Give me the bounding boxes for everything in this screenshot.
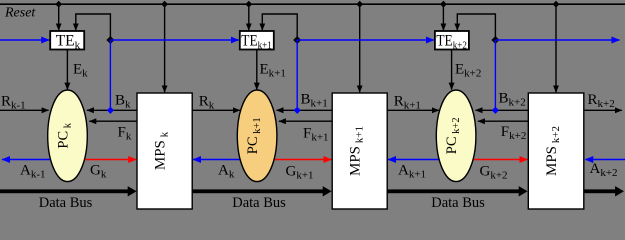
wire Data Bus segment 2: [192, 189, 323, 193]
junction on Reset net above MPS_k+2: [553, 1, 560, 8]
microprogram sequencer MPS_k: [137, 93, 192, 209]
wire B_k+2 from MPS_k+2 to PC_k+2: [476, 109, 529, 111]
junction B_k+1 (blue diamond): [294, 107, 301, 114]
wire TE_k feedback L-path from node to TE input 2: [76, 14, 111, 40]
wire Reset to MPS_k+1 top: [359, 4, 361, 92]
wire A_k+2 from right edge into MPS_k+2: [585, 159, 625, 161]
wire F_k+2 from MPS_k+2 to PC_k+2: [478, 120, 528, 122]
register TE_k+2: [435, 31, 469, 50]
junction B_k+2 (blue diamond): [492, 107, 499, 114]
wire R_k+1 into PC_k+2: [387, 109, 439, 111]
svg-text:Reset: Reset: [4, 5, 36, 20]
wire TE_k+2 feedback L-path from node to TE input 2: [457, 14, 495, 40]
svg-text:Data Bus: Data Bus: [39, 195, 93, 211]
wire Reset to TE_k+2 input 1: [442, 4, 444, 30]
program counter PC_k+2: [436, 90, 476, 182]
wire E_k from TE_k to PC_k: [66, 50, 68, 90]
wire A output of PC_k+2 (blue, to the left): [388, 159, 456, 161]
wire F_k from MPS_k to PC_k: [89, 120, 137, 122]
node T_k+1 junction (black diamond) on blue enable line: [293, 36, 301, 44]
svg-text:Data Bus: Data Bus: [232, 195, 286, 211]
wire blue vertical from node T_k+2 down to B_k+2 line: [494, 40, 496, 110]
wire blue vertical from node T_k down to B_k line: [109, 40, 111, 110]
wire TE_k+1 feedback L-path from node to TE input 2: [262, 14, 297, 40]
junction B_k (blue diamond): [107, 107, 114, 114]
wire A output of PC_k+1 (blue, to the left): [193, 159, 257, 161]
wire Reset to TE_k input 1: [58, 4, 60, 30]
register TE_k+1: [240, 31, 274, 50]
junction on Reset net above MPS_k+1: [356, 1, 363, 8]
wire blue enable line into TE_k+2: [297, 39, 434, 41]
wire Data Bus segment 3: [387, 189, 519, 193]
wire R_k into PC_k+1: [192, 109, 240, 111]
wire Reset to MPS_k+2 top: [555, 4, 557, 92]
junction on Reset net above TE_k+2: [440, 1, 447, 8]
wire G_k+1 output of PC_k+1 (red, to MPS_k+1): [257, 159, 331, 161]
node T_k junction (black diamond) on blue enable line: [106, 36, 114, 44]
node T_k+2 junction (black diamond) on blue enable line: [491, 36, 499, 44]
wire E_k+2 from TE_k+2 to PC_k+2: [451, 50, 453, 90]
wire B_k from MPS_k to PC_k: [87, 109, 137, 111]
wire B_k+1 from MPS_k+1 to PC_k+1: [277, 109, 333, 111]
junction on Reset net above MPS_k: [161, 1, 168, 8]
wire G_k+2 output of PC_k+2 (red, to MPS_k+2): [456, 159, 527, 161]
wire Reset net horizontal: [0, 3, 625, 5]
svg-text:Data Bus: Data Bus: [431, 195, 485, 211]
wire E_k+1 from TE_k+1 to PC_k+1: [256, 50, 258, 90]
junction on Reset net above TE_k+1: [245, 1, 252, 8]
register TE_k: [50, 31, 84, 50]
wire A output of PC_k (blue, to the left): [2, 159, 68, 161]
wire R_k+2 out of MPS_k+2 to right edge: [584, 109, 622, 111]
wire Reset to MPS_k top: [164, 4, 166, 92]
junction on Reset net above TE_k: [55, 1, 62, 8]
microprogram sequencer MPS_k+2: [528, 93, 584, 209]
program counter PC_k+1: [237, 90, 277, 182]
wire Reset to TE_k+1 input 1: [248, 4, 250, 30]
wire blue enable line into TE_k+1: [110, 39, 238, 41]
program counter PC_k: [48, 90, 88, 182]
wire F_k+1 from MPS_k+1 to PC_k+1: [279, 120, 332, 122]
wire Data Bus segment 4: [584, 189, 616, 193]
wire Data Bus segment 1: [0, 189, 128, 193]
wire R_k-1 into PC_k: [0, 109, 49, 111]
wire blue vertical from node T_k+1 down to B_k+1 line: [296, 40, 298, 110]
microprogram sequencer MPS_k+1: [332, 93, 387, 209]
wire G_k output of PC_k (red, to MPS_k): [68, 159, 137, 161]
wire blue enable line into TE_k: [0, 39, 49, 41]
wire blue enable line out to the right edge: [495, 39, 619, 41]
